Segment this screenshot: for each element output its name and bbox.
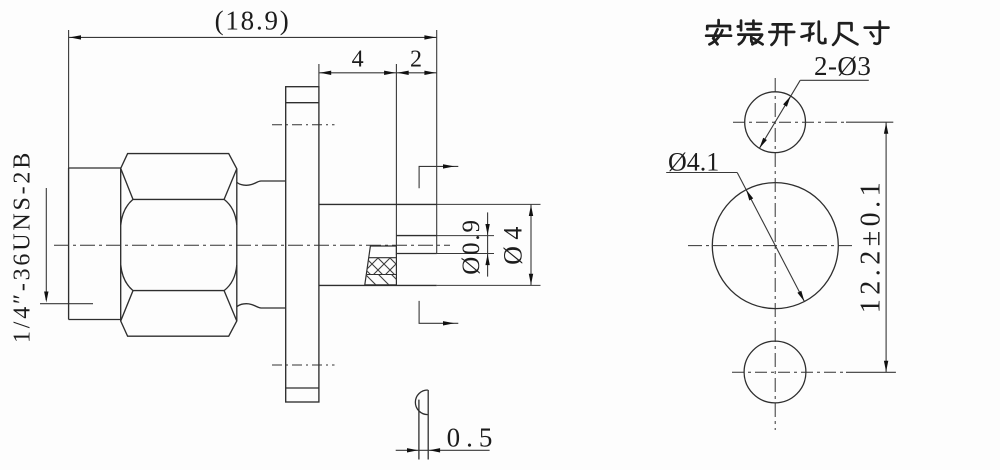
label dia4.1 leader diameter line [737, 173, 804, 302]
pin bottom edge [396, 253, 436, 255]
detail pin tip left line [418, 400, 420, 460]
dimension 0.5 line [396, 449, 490, 451]
char cun [865, 22, 889, 44]
dimension 0.5 arrow left [407, 448, 418, 452]
dimension (18.9) extension line left [68, 30, 70, 168]
insulator inner line 1 [369, 257, 397, 259]
hex chamfer arc upper-left [121, 199, 133, 225]
dimension (18.9) extension line right / pin end edge [436, 30, 438, 254]
detail pin tip arc [415, 390, 427, 415]
top hole extension line to dim [846, 121, 893, 123]
dia4 arrow lower [529, 274, 533, 285]
arrowhead 2 right [424, 71, 436, 75]
cylinder top extension line for dia4 [437, 203, 541, 205]
mounting: bottom hole circle [744, 341, 806, 403]
barrel top edge [69, 167, 121, 169]
body cylinder bottom edge [319, 284, 437, 286]
mounting: top hole circle [745, 92, 806, 153]
dia4.1 arrow lower [797, 291, 804, 302]
title text: 安装开孔尺寸 drawn as strokes [706, 20, 888, 45]
body cylinder top edge [319, 203, 437, 205]
neck top curve [237, 181, 286, 185]
thread leader arrowhead [44, 292, 48, 303]
arrowhead (18.9) left [70, 35, 82, 39]
dimension line (18.9) [69, 36, 437, 38]
bottom hole extension line to dim [846, 371, 896, 373]
hex chamfer arc lower-left [121, 265, 133, 291]
char an [706, 20, 731, 44]
arrowhead 4 left [320, 71, 332, 75]
char zhuang [738, 21, 763, 45]
hex face line lower [133, 290, 224, 292]
insulator section trapezoid [365, 246, 397, 285]
dia4.1 arrow upper [746, 190, 753, 201]
bottom hole horizontal centerline [732, 371, 846, 373]
top hole horizontal centerline [733, 121, 846, 123]
extension line dielectric face [395, 64, 397, 255]
label dia4.1 underline [666, 172, 737, 174]
thread leader line [45, 188, 47, 300]
hex nut outline [121, 154, 237, 337]
svg-text:12.2±0.1: 12.2±0.1 [856, 178, 887, 313]
dimension 0.5 arrow right [429, 448, 440, 452]
flange hole centerline top [272, 124, 335, 126]
hex chamfer diagonal lower-right [224, 291, 237, 321]
main centerline [54, 244, 450, 246]
svg-text:1/4″-36UNS-2B: 1/4″-36UNS-2B [10, 150, 36, 343]
svg-text:Ø0.9: Ø0.9 [458, 218, 485, 275]
dimension 4 and 2 line [319, 72, 437, 74]
flange corner line bottom [286, 387, 319, 389]
arrowhead 4 right [384, 71, 396, 75]
vertical centerline [774, 78, 776, 430]
section arrow bottom [419, 301, 458, 323]
2-dia3 arrow upper [783, 96, 791, 107]
pin top extension line for dia0.9 [437, 235, 494, 237]
pin top edge [396, 235, 436, 237]
dia0.9 dimension line [487, 212, 489, 276]
insulator crosshatch band [367, 258, 397, 275]
insulator single hatch band [365, 275, 397, 285]
svg-text:Ø4: Ø4 [499, 220, 528, 265]
thread leader landing line [40, 303, 93, 305]
extension line flange right top [318, 64, 320, 87]
barrel left edge [68, 168, 70, 320]
dia4 arrow upper [529, 205, 533, 216]
neck bottom curve [237, 304, 286, 308]
hex chamfer diagonal upper-right [224, 169, 237, 200]
mounting: center hole circle [712, 183, 838, 309]
flange corner line top [286, 102, 319, 104]
char kong [802, 22, 826, 43]
svg-text:0.5: 0.5 [447, 423, 499, 453]
svg-text:4: 4 [352, 47, 364, 73]
char chi [833, 23, 857, 45]
dia0.9 arrow upper [485, 224, 489, 235]
section arrow top [419, 166, 458, 188]
12.2 arrow top [884, 123, 888, 134]
pin bottom extension line for dia0.9 [437, 253, 494, 255]
2-dia3 arrow lower [759, 138, 767, 149]
arrowhead (18.9) right [424, 35, 436, 39]
label 2-dia3 underline [800, 79, 869, 81]
detail pin tip right line [427, 390, 429, 460]
hex chamfer diagonal upper-left [121, 168, 133, 199]
insulator inner line 2 [367, 274, 397, 276]
dimension 12.2 line [885, 122, 887, 372]
svg-text:2-Ø3: 2-Ø3 [814, 51, 872, 81]
flange outline [286, 87, 319, 402]
hex chamfer arc upper-right [224, 199, 237, 225]
dia0.9 arrow lower [485, 254, 489, 265]
cylinder bottom extension line for dia4 [437, 284, 541, 286]
center hole horizontal centerline [688, 245, 854, 247]
arrowhead 2 left [397, 71, 409, 75]
hex face line upper [133, 198, 224, 200]
svg-text:2: 2 [410, 47, 422, 73]
svg-text:(18.9): (18.9) [215, 6, 291, 36]
12.2 arrow bottom [884, 361, 888, 372]
hex chamfer arc lower-right [224, 265, 237, 291]
dia4 dimension line [530, 204, 532, 285]
barrel bottom edge [69, 319, 121, 321]
hex chamfer diagonal lower-left [121, 291, 133, 321]
label 2-dia3 leader diameter line [759, 80, 800, 148]
flange hole centerline bottom [272, 364, 335, 366]
char kai [769, 24, 794, 45]
